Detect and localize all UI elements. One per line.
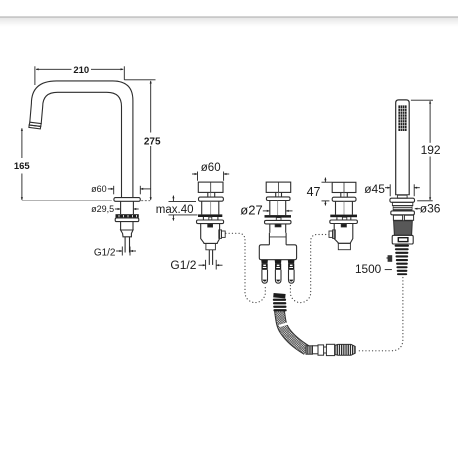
svg-text:ø36: ø36: [420, 202, 441, 216]
thread band: [116, 214, 139, 217]
svg-text:ø60: ø60: [91, 184, 107, 194]
lower body: [201, 224, 220, 244]
svg-text:ø60: ø60: [201, 162, 221, 174]
white gap in hose: [279, 323, 289, 326]
nozzle: [121, 230, 133, 237]
neck: [268, 233, 270, 245]
thread band slits: [119, 215, 137, 217]
datum line: [22, 199, 112, 201]
dim G1/2 handle1: [199, 260, 223, 270]
base plate: [197, 220, 224, 224]
stem: [275, 192, 277, 197]
head + handle outline: [396, 100, 410, 195]
dark band: [198, 214, 222, 217]
knob: [266, 182, 291, 192]
stem: [207, 192, 209, 197]
svg-text:ø45: ø45: [364, 182, 385, 196]
spout tube outer: [30, 81, 133, 197]
svg-text:ø27: ø27: [240, 203, 262, 218]
stripes on gray band: [393, 207, 411, 210]
coil: [395, 245, 409, 276]
flange: [114, 198, 140, 202]
svg-text:max.40: max.40: [156, 204, 194, 216]
dim max.40: [169, 196, 198, 221]
svg-text:165: 165: [14, 161, 31, 172]
locknut: [115, 218, 139, 222]
dim G1/2 spout: [116, 247, 136, 256]
svg-text:G1/2: G1/2: [94, 248, 116, 259]
svg-text:210: 210: [73, 65, 89, 76]
dim 192: [411, 100, 433, 201]
dim 275: [124, 80, 155, 200]
coil rings: [273, 299, 286, 301]
manifold: [259, 245, 296, 260]
dim o36: [415, 208, 421, 210]
top page rule: [0, 17, 458, 27]
braided hose curve: [279, 311, 306, 351]
lower section: [206, 243, 216, 249]
clip: [388, 255, 393, 262]
shower hose to supply hose: [358, 278, 403, 351]
dark band: [265, 215, 292, 218]
hose top cap: [273, 293, 285, 298]
knob: [198, 182, 223, 192]
svg-text:47: 47: [307, 185, 321, 199]
dim 47: [322, 178, 332, 206]
dim o60 spout: [108, 186, 151, 195]
dim o29,5: [115, 208, 139, 210]
handle2 to right outlet: [290, 235, 329, 303]
notch: [209, 217, 212, 220]
svg-text:ø29,5: ø29,5: [91, 204, 114, 214]
dim o45: [385, 184, 420, 196]
spray grid: [398, 105, 406, 131]
outlets: [261, 260, 294, 283]
body: [201, 201, 203, 214]
top plate: [266, 197, 290, 201]
aerator tip: [29, 122, 41, 126]
base plate: [265, 220, 292, 224]
spout tube inner: [41, 92, 121, 197]
svg-text:275: 275: [144, 136, 161, 147]
body below: [269, 224, 271, 233]
column: [269, 201, 271, 216]
handle1 to left outlet: [226, 233, 265, 302]
pipe: [124, 237, 126, 253]
holder assembly: [390, 198, 415, 244]
dim 210: [35, 66, 124, 85]
end fittings: [306, 344, 355, 355]
svg-text:G1/2: G1/2: [170, 258, 196, 272]
notch: [276, 218, 281, 221]
dim o60 handle1: [192, 172, 229, 181]
tube below: [120, 222, 122, 230]
dim o27: [263, 210, 293, 212]
dim 165: [21, 128, 23, 200]
shank: [120, 201, 122, 214]
side outlet: [219, 230, 222, 239]
side outlet left: [333, 230, 336, 239]
svg-text:192: 192: [421, 143, 441, 157]
top plate: [199, 197, 224, 201]
svg-text:1500: 1500: [355, 262, 382, 276]
